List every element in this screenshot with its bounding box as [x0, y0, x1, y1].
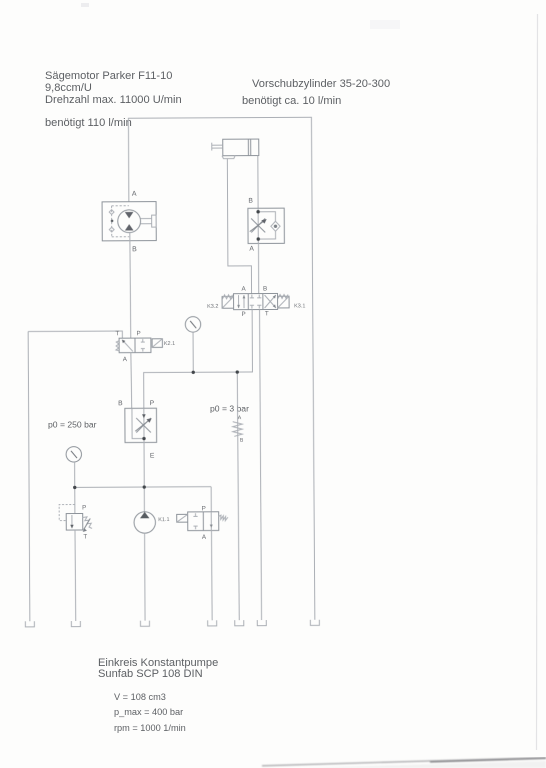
svg-text:P: P — [82, 504, 86, 511]
svg-text:Vorschubzylinder 35-20-300: Vorschubzylinder 35-20-300 — [252, 78, 390, 90]
svg-text:benötigt ca. 10 l/min: benötigt ca. 10 l/min — [242, 95, 341, 107]
svg-text:K2.1: K2.1 — [164, 341, 175, 347]
svg-text:benötigt 110 l/min: benötigt 110 l/min — [45, 117, 132, 129]
svg-text:p0 = 3 bar: p0 = 3 bar — [210, 404, 249, 414]
svg-text:K1.1: K1.1 — [158, 517, 169, 523]
svg-text:A: A — [249, 246, 254, 253]
svg-text:P: P — [241, 311, 245, 318]
svg-text:T: T — [83, 533, 87, 540]
svg-text:B: B — [240, 438, 244, 444]
svg-text:E: E — [150, 453, 155, 460]
svg-text:P: P — [150, 400, 155, 407]
svg-text:rpm = 1000 1/min: rpm = 1000 1/min — [114, 723, 186, 733]
svg-text:K3.2: K3.2 — [207, 304, 218, 310]
svg-text:p_max = 400 bar: p_max = 400 bar — [114, 707, 183, 717]
svg-text:B: B — [132, 246, 137, 253]
svg-text:P: P — [202, 505, 206, 512]
svg-text:A: A — [238, 415, 242, 421]
svg-text:p0 = 250 bar: p0 = 250 bar — [48, 420, 97, 430]
svg-text:Drehzahl max. 11000 U/min: Drehzahl max. 11000 U/min — [45, 94, 182, 106]
svg-text:K3.1: K3.1 — [294, 303, 305, 309]
svg-text:B: B — [118, 400, 123, 407]
svg-text:9,8ccm/U: 9,8ccm/U — [45, 82, 92, 94]
svg-text:B: B — [248, 198, 253, 205]
svg-text:T: T — [265, 310, 269, 317]
svg-text:P: P — [137, 330, 141, 337]
svg-text:T: T — [115, 330, 119, 337]
svg-text:V = 108 cm3: V = 108 cm3 — [114, 692, 166, 702]
svg-text:A: A — [132, 191, 137, 198]
svg-text:Sägemotor Parker F11-10: Sägemotor Parker F11-10 — [45, 70, 172, 82]
svg-text:Sunfab SCP 108 DIN: Sunfab SCP 108 DIN — [98, 668, 203, 680]
svg-text:B: B — [263, 286, 267, 293]
